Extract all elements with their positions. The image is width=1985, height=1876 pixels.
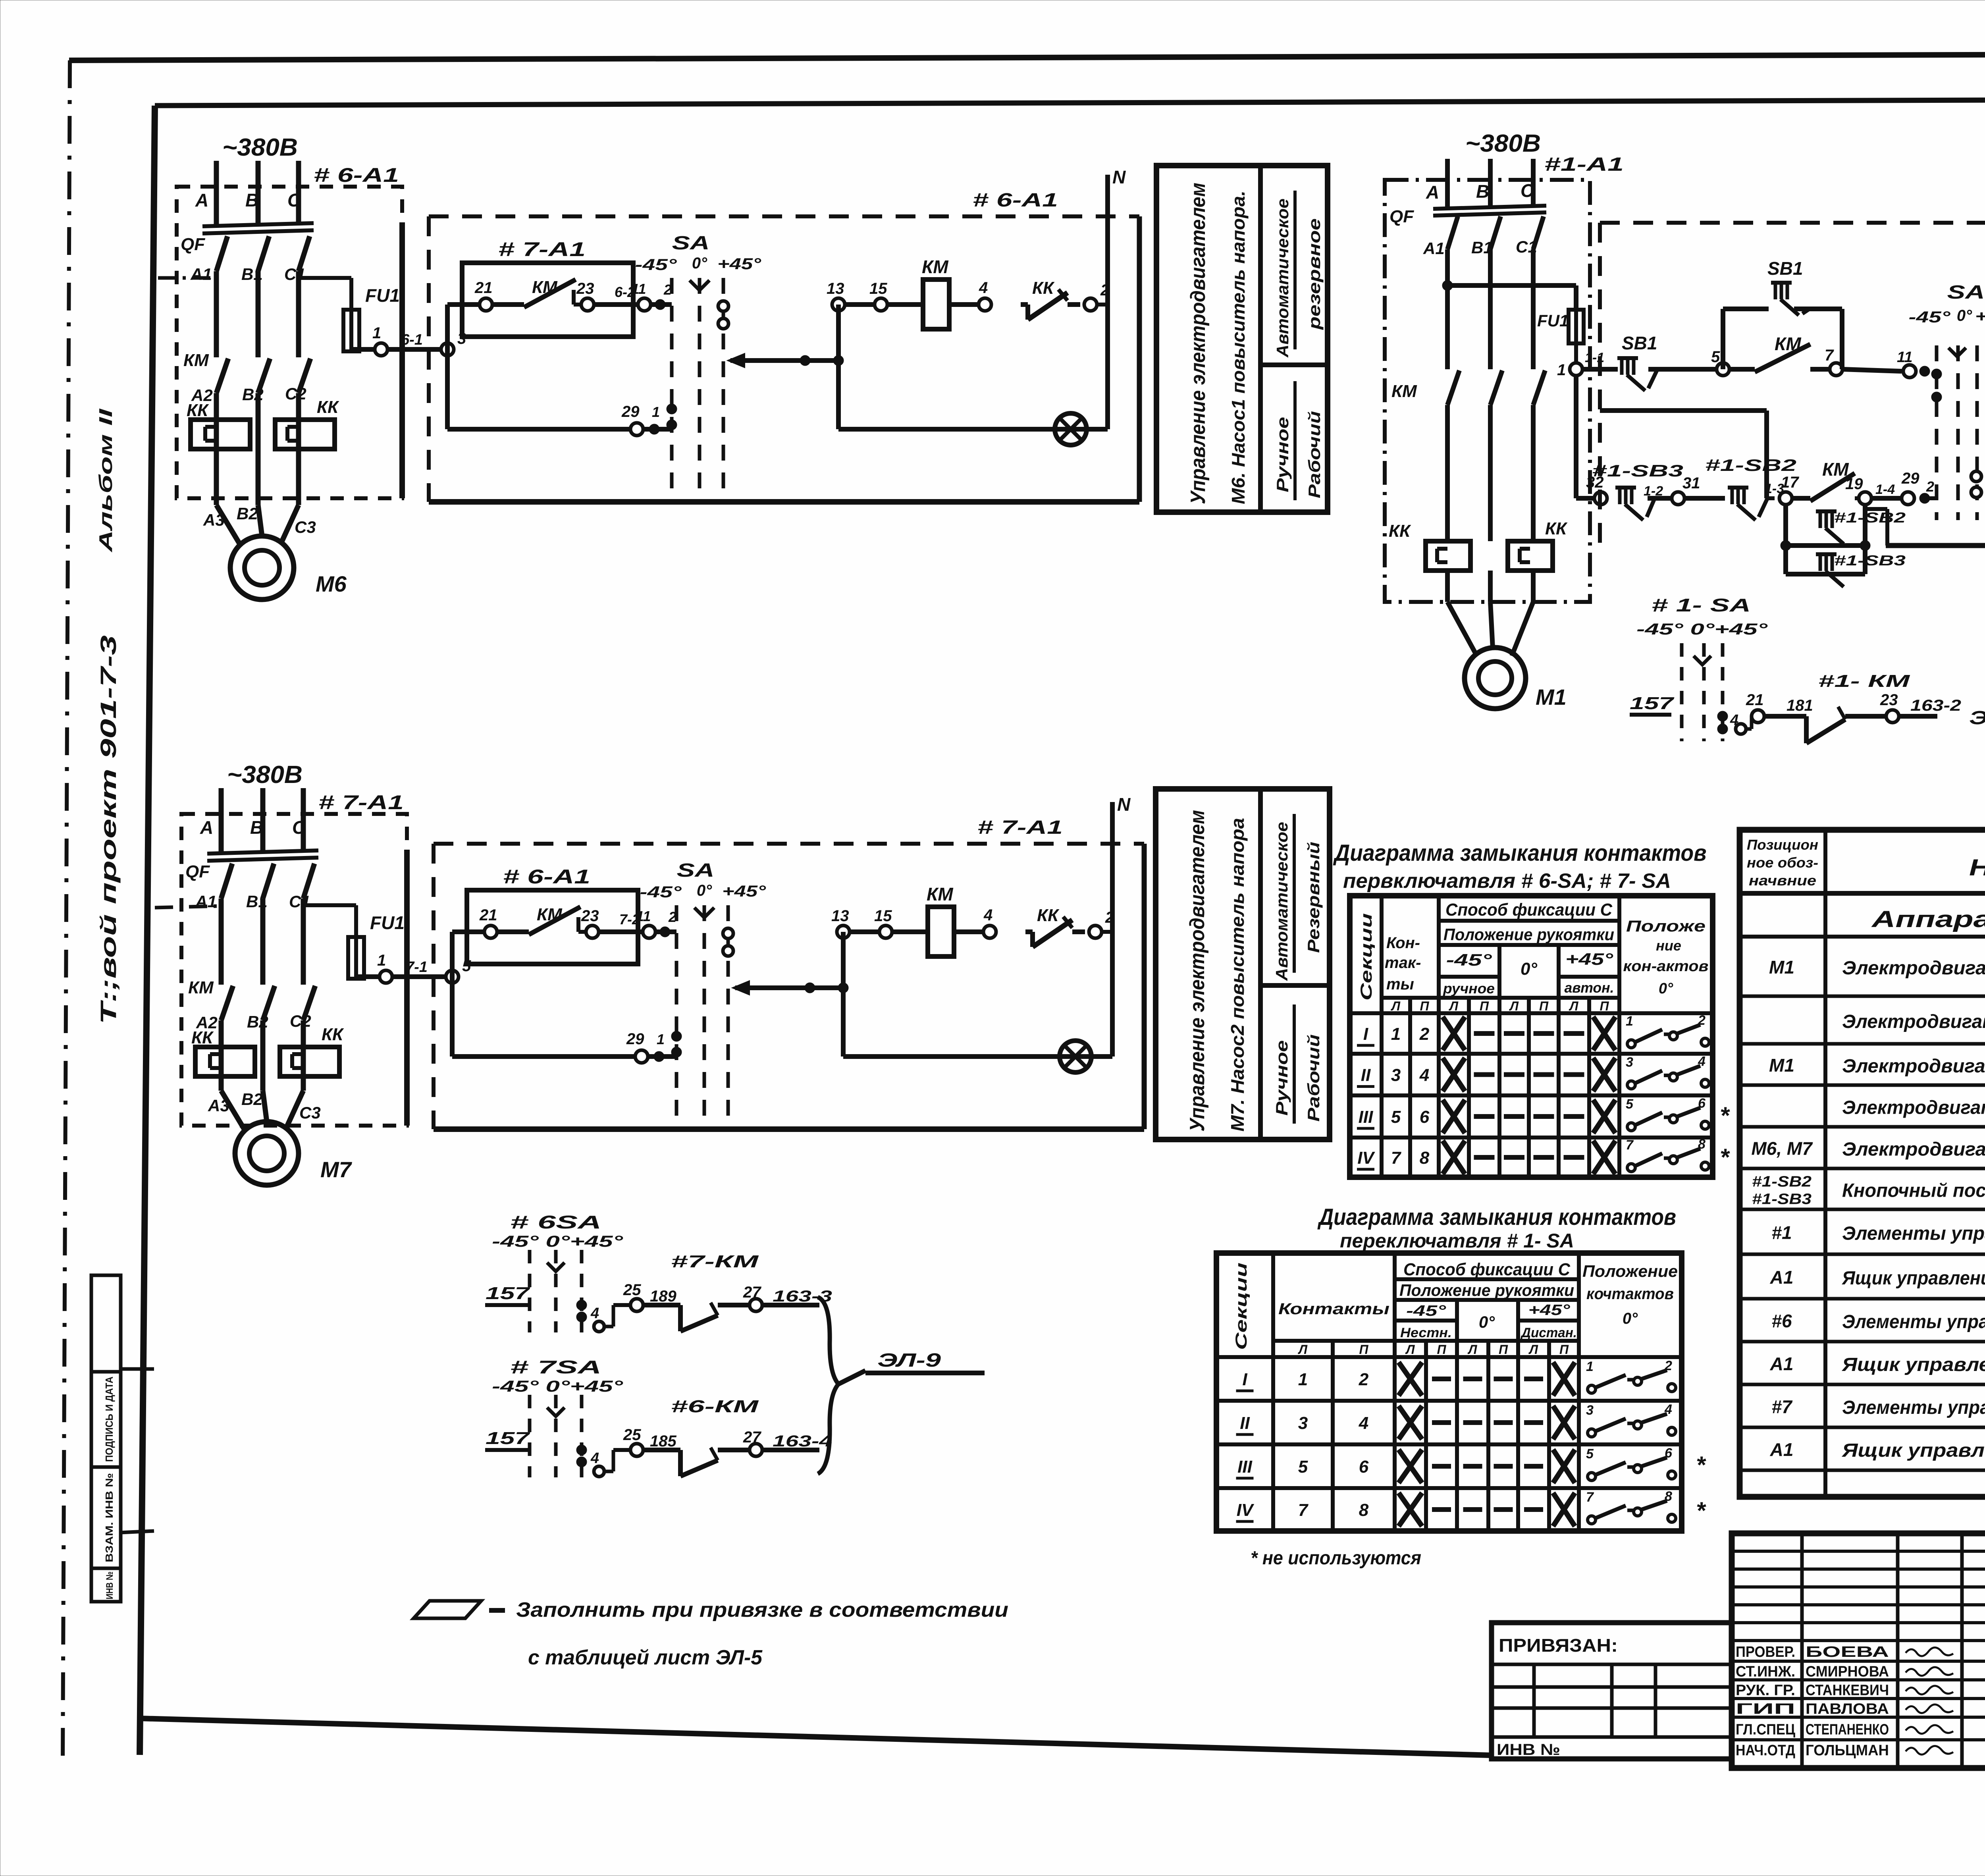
svg-text:Автоматическое: Автоматическое xyxy=(1272,822,1291,981)
motor M1 xyxy=(1465,648,1526,709)
selector #1-SA dashed line 1 xyxy=(1680,643,1684,741)
thermal contact KK (NC) xyxy=(1025,917,1085,947)
svg-text:-45° 0°+45°: -45° 0°+45° xyxy=(492,1233,624,1250)
svg-text:III: III xyxy=(1237,1457,1252,1477)
starter cabinet right edge xyxy=(399,222,405,498)
svg-text:Л: Л xyxy=(1298,1342,1308,1357)
parts row 2 name xyxy=(1842,1011,1985,1032)
table 2 row IV dashes xyxy=(1432,1507,1543,1512)
svg-text:ИНВ №: ИНВ № xyxy=(104,1571,115,1599)
table 2 row IV X mark right xyxy=(1553,1493,1575,1526)
svg-text:~380В: ~380В xyxy=(1465,130,1541,157)
contact ring (# 7SА) xyxy=(594,1466,604,1477)
table 2 row III contact position sketch xyxy=(1586,1446,1676,1481)
svg-text:В2: В2 xyxy=(247,1012,268,1031)
table 1 row II X mark left xyxy=(1443,1058,1465,1091)
svg-text:Электродвигатель типа АО2-32-2: Электродвигатель типа АО2-32-2, 4кВт,~38… xyxy=(1842,1139,1985,1160)
svg-text:Положение рукоятки: Положение рукоятки xyxy=(1443,925,1614,944)
table 2 header: Положение контактов xyxy=(1582,1262,1678,1327)
thermal element KK (phase A) xyxy=(191,420,250,449)
note: asterisk not used xyxy=(1251,1548,1421,1569)
svg-text:# 1- SА: # 1- SА xyxy=(1652,595,1751,615)
selector SA contact dots lower xyxy=(671,1031,682,1057)
phase labels A B C xyxy=(200,817,306,838)
thermal relay KK label right xyxy=(322,1025,344,1044)
signal lamp xyxy=(1055,413,1087,445)
relay #6-КМ label xyxy=(671,1397,759,1416)
svg-text:2: 2 xyxy=(1926,478,1934,495)
sheet inner left frame line xyxy=(140,106,155,1755)
labels A1 B1 C1 xyxy=(190,265,306,283)
svg-text:+45°: +45° xyxy=(1975,308,1985,325)
svg-text:В1: В1 xyxy=(246,892,268,911)
svg-text:С3: С3 xyxy=(299,1103,321,1122)
table 2 row II dashes xyxy=(1432,1420,1543,1425)
selector output arrow wire xyxy=(732,981,848,995)
svg-text:QF: QF xyxy=(185,862,210,881)
aux contact node 21 xyxy=(484,925,497,938)
svg-text:163-4: 163-4 xyxy=(773,1433,832,1450)
starter cabinet right edge xyxy=(404,850,410,1126)
node 13 xyxy=(832,298,845,311)
svg-text:FU1: FU1 xyxy=(1537,311,1569,330)
svg-text:ГЛ.СПЕЦ: ГЛ.СПЕЦ xyxy=(1736,1722,1795,1738)
svg-text:29: 29 xyxy=(1901,470,1919,487)
svg-text:Диаграмма замыкания контакто: Диаграмма замыкания контактов xyxy=(1317,1204,1676,1230)
parts row 3 name xyxy=(1842,1056,1985,1077)
node 15 label xyxy=(874,907,892,925)
svg-text:185: 185 xyxy=(650,1433,676,1450)
thermal relay KK label left xyxy=(187,401,209,420)
node 2 xyxy=(1084,298,1097,311)
neutral label N xyxy=(1117,794,1131,815)
table 2 row II X mark right xyxy=(1553,1406,1575,1439)
svg-text:КК: КК xyxy=(1037,906,1060,925)
phase wire 2 (M1) xyxy=(1490,159,1502,602)
table 1 row IV X mark left xyxy=(1443,1141,1465,1174)
fuse FU1 label xyxy=(365,285,400,306)
wire number 163-2 xyxy=(1910,697,1961,714)
svg-text:I: I xyxy=(1363,1024,1368,1044)
selector #1-SA dashed line 3 xyxy=(1721,643,1725,741)
svg-text:0°: 0° xyxy=(1659,980,1673,997)
node 2 label xyxy=(1105,909,1114,926)
svg-text:С2: С2 xyxy=(290,1012,311,1030)
svg-text:#1-SВ3: #1-SВ3 xyxy=(1592,461,1683,480)
svg-text:~380В: ~380В xyxy=(227,761,303,789)
parts row 8 name xyxy=(1841,1268,1985,1289)
table 2 row I contact position sketch xyxy=(1586,1358,1676,1393)
wire node2 to N line xyxy=(1097,303,1108,307)
parts row 10 name xyxy=(1841,1354,1985,1375)
table 1 row IV dashes xyxy=(1474,1155,1584,1160)
wire node2 to N line xyxy=(1102,930,1112,934)
svg-text:*: * xyxy=(1696,1497,1706,1524)
node 4 xyxy=(983,925,996,938)
svg-text:6: 6 xyxy=(1698,1096,1706,1111)
selector SA dashed line 1 xyxy=(670,278,674,496)
thermal element KK (phase A) xyxy=(195,1047,255,1076)
svg-text:5: 5 xyxy=(1711,348,1720,366)
table 2 row IV contact numbers xyxy=(1298,1500,1369,1520)
node label 3 xyxy=(457,330,466,347)
phase labels A B C (M1) xyxy=(1426,180,1534,202)
svg-text:1-2: 1-2 xyxy=(1644,484,1663,499)
svg-text:А: А xyxy=(195,190,208,210)
motor label М6 xyxy=(316,571,347,596)
svg-text:М1: М1 xyxy=(1536,684,1567,710)
svg-text:так-: так- xyxy=(1385,954,1421,972)
table 2 row IV contact position sketch xyxy=(1586,1489,1676,1524)
table 1 row II section numeral xyxy=(1357,1066,1374,1087)
svg-text:6: 6 xyxy=(1665,1446,1673,1461)
table 2 header: Секции xyxy=(1233,1263,1250,1350)
supply tap dash-dot stub (M7) xyxy=(155,906,219,908)
svg-text:QF: QF xyxy=(181,235,205,254)
node 3 xyxy=(441,343,454,356)
svg-text:с таблицей лист ЭЛ-5: с таблицей лист ЭЛ-5 xyxy=(528,1646,763,1669)
caption text: Ручное xyxy=(1273,417,1292,492)
svg-text:#1-SВ2: #1-SВ2 xyxy=(1705,456,1796,474)
svg-text:П: П xyxy=(1420,999,1429,1013)
svg-text:КМ: КМ xyxy=(1391,382,1417,401)
svg-text:#1- КМ: #1- КМ xyxy=(1818,671,1910,691)
table 1 header: Контакты xyxy=(1385,934,1421,993)
parts row 9 position xyxy=(1771,1311,1792,1331)
svg-text:5: 5 xyxy=(1626,1097,1634,1112)
svg-text:FU1: FU1 xyxy=(370,912,405,933)
svg-text:0°: 0° xyxy=(1623,1310,1638,1327)
svg-text:N: N xyxy=(1112,167,1126,187)
svg-text:1: 1 xyxy=(1298,1370,1308,1389)
svg-text:Л: Л xyxy=(1391,999,1401,1013)
svg-text:1: 1 xyxy=(1626,1014,1633,1029)
svg-text:ние: ние xyxy=(1656,937,1681,954)
circuit breaker QF bar (M1) xyxy=(1433,206,1546,216)
svg-text:Альбом II: Альбом II xyxy=(95,408,116,553)
svg-text:23: 23 xyxy=(1880,691,1898,709)
svg-text:#1-А1: #1-А1 xyxy=(1544,154,1624,175)
label 4 xyxy=(1730,712,1738,729)
svg-text:3: 3 xyxy=(1586,1403,1594,1418)
svg-text:А3: А3 xyxy=(208,1096,229,1115)
sheet ref ЭЛ-9 xyxy=(1969,708,1985,729)
table 1 header: Положение рукоятки xyxy=(1443,925,1614,944)
self-hold KM label xyxy=(1775,334,1802,354)
labels A3 B2 C3 xyxy=(208,1090,321,1122)
aux contact node 21 xyxy=(480,298,492,311)
svg-text:29: 29 xyxy=(626,1030,644,1048)
wire node3 up to aux contact xyxy=(452,932,491,977)
stamp text: подпись и дата xyxy=(103,1377,115,1462)
svg-text:П: П xyxy=(1437,1342,1446,1357)
table 2 title line 1 xyxy=(1317,1204,1676,1230)
node 27 (# 7SА) xyxy=(750,1444,762,1456)
contact #7-КМ (NO) xyxy=(643,1303,750,1331)
node 15 xyxy=(875,298,887,311)
junction dot 2 xyxy=(660,927,670,937)
svg-text:КК: КК xyxy=(317,397,339,417)
svg-text:С: С xyxy=(1521,180,1534,201)
wire ring to node 25 (# 7SА) xyxy=(604,1450,630,1471)
svg-text:2: 2 xyxy=(1359,1370,1369,1389)
selector SA dashed line 1 (M1) xyxy=(1935,345,1939,520)
node 23 label xyxy=(581,907,599,925)
selector SA handle mark xyxy=(694,908,714,918)
contact #6-КМ (NO) xyxy=(643,1448,750,1476)
svg-text:0°: 0° xyxy=(1957,307,1972,324)
svg-text:15: 15 xyxy=(874,907,892,925)
svg-text:I: I xyxy=(1242,1370,1247,1389)
node 2 label xyxy=(1100,281,1109,299)
svg-text:КК: КК xyxy=(1389,521,1411,541)
svg-text:автон.: автон. xyxy=(1565,979,1614,996)
node 29 xyxy=(635,1050,648,1063)
node 4 label xyxy=(979,279,988,297)
svg-text:Секции: Секции xyxy=(1358,913,1375,1001)
caption text: Автоматическое (2) xyxy=(1272,822,1291,981)
table 2 row III dashes xyxy=(1432,1464,1543,1469)
table 2 row IV section numeral xyxy=(1236,1500,1255,1521)
aux relay box label # 6-А1 xyxy=(503,866,590,888)
svg-text:8: 8 xyxy=(1698,1137,1706,1152)
control cabinet dashed box #1-A1 xyxy=(1600,223,1985,546)
svg-text:N: N xyxy=(1117,794,1131,815)
svg-text:6: 6 xyxy=(1420,1107,1430,1127)
svg-text:#1-SВ2: #1-SВ2 xyxy=(1834,509,1906,526)
svg-text:С1: С1 xyxy=(284,265,306,283)
lamp bus wire xyxy=(843,1054,1112,1059)
wire 31 to SB2 xyxy=(1684,496,1725,501)
circuit breaker QF label (M1) xyxy=(1389,207,1414,226)
parts row 7 qty xyxy=(0,0,0,0)
label 2 (M1) xyxy=(1926,478,1934,495)
thermal element KK (phase C) xyxy=(275,420,335,449)
table 2 row II contact position sketch xyxy=(1586,1402,1676,1437)
svg-text:-45°: -45° xyxy=(1406,1303,1446,1319)
svg-text:29: 29 xyxy=(621,403,640,420)
selector # 6SА dashed line 3 xyxy=(580,1250,584,1332)
svg-text:Способ фиксации С: Способ фиксации С xyxy=(1445,900,1613,920)
table 1 row I contact numbers xyxy=(1391,1024,1430,1044)
svg-text:#1-SВ3: #1-SВ3 xyxy=(1752,1191,1812,1208)
svg-text:2: 2 xyxy=(1419,1024,1430,1044)
svg-text:КК: КК xyxy=(1545,519,1568,538)
control cabinet dashed box # 6-А1 xyxy=(429,216,1139,502)
contactor KM label (power contacts) xyxy=(183,351,209,370)
svg-text:НАЧ.ОТД: НАЧ.ОТД xyxy=(1736,1742,1795,1759)
table 2 row I X mark right xyxy=(1553,1362,1575,1396)
svg-text:7: 7 xyxy=(1391,1148,1402,1168)
node 31 xyxy=(1672,492,1684,505)
wire number 181 xyxy=(1786,697,1813,714)
svg-text:11: 11 xyxy=(636,908,651,924)
junction dot 2 (M1) xyxy=(1919,493,1930,503)
selector # 6SА handle xyxy=(547,1263,565,1271)
svg-text:А1: А1 xyxy=(1423,239,1445,258)
svg-text:#7-КМ: #7-КМ xyxy=(671,1252,759,1271)
svg-text:181: 181 xyxy=(1786,697,1813,714)
svg-text:М7. Насос2 повыситель напора: М7. Насос2 повыситель напора xyxy=(1227,818,1248,1132)
title block signature row НАЧ.ОТД xyxy=(1736,1742,1953,1759)
label 1 xyxy=(652,404,660,420)
parts row 10 position xyxy=(1770,1353,1794,1374)
table 1 row IV X mark right xyxy=(1593,1141,1615,1174)
wire number label 7-2 xyxy=(619,911,640,927)
leader to EL-9 xyxy=(838,1371,865,1384)
wire number label 6-2 xyxy=(615,284,635,300)
svg-text:+45°: +45° xyxy=(1528,1302,1571,1319)
svg-text:КК: КК xyxy=(187,401,209,420)
privyazan box xyxy=(1492,1623,1732,1759)
parts table grid xyxy=(1740,830,1985,1497)
svg-text:Ручное: Ручное xyxy=(1273,417,1292,492)
selector #1-SA label xyxy=(1652,595,1751,615)
selector SA angle labels (M1) xyxy=(1909,307,1985,326)
svg-text:Диаграмма замыкания контактов: Диаграмма замыкания контактов xyxy=(1333,840,1707,866)
svg-text:ЭЛ-9: ЭЛ-9 xyxy=(877,1350,941,1371)
svg-text:13: 13 xyxy=(831,907,849,925)
svg-text:#6: #6 xyxy=(1771,1311,1792,1331)
svg-text:IV: IV xyxy=(1237,1500,1255,1520)
supply label ~380V (M1) xyxy=(1465,130,1541,157)
wire coil to node 4 xyxy=(949,302,985,307)
table 1 row II contact position sketch xyxy=(1626,1054,1709,1089)
svg-text:КМ: КМ xyxy=(927,884,954,904)
caption text: Резервный xyxy=(1304,842,1323,953)
svg-text:КМ: КМ xyxy=(183,351,209,370)
table 1 title line 2 xyxy=(1343,870,1671,893)
table 1 row I X mark right xyxy=(1593,1017,1615,1050)
svg-text:1: 1 xyxy=(1586,1359,1594,1374)
motor leads to М7 xyxy=(221,1091,303,1130)
svg-text:# 6-А1: # 6-А1 xyxy=(314,164,399,186)
svg-text:Заполнить при привязке в соотв: Заполнить при привязке в соответствии xyxy=(516,1598,1008,1621)
svg-text:СТ.ИНЖ.: СТ.ИНЖ. xyxy=(1736,1664,1795,1680)
table 2 row II contact numbers xyxy=(1298,1413,1368,1433)
node 15 label xyxy=(869,280,887,297)
node 4 label xyxy=(983,906,992,924)
supply label ~380V xyxy=(222,134,298,161)
thermal element KK phase C (M1) xyxy=(1508,541,1553,571)
contact #1-KM (NO) xyxy=(1764,707,1886,743)
svg-text:# 6-А1: # 6-А1 xyxy=(503,866,590,888)
svg-text:QF: QF xyxy=(1389,207,1414,226)
table 1 header: ручное xyxy=(1443,980,1495,997)
phase wire 3 (M1) xyxy=(1533,159,1545,602)
starter cabinet dashed box # 7-А1 xyxy=(181,814,407,1126)
wire node1 to SB1 xyxy=(1582,367,1618,372)
selector # 7SА dashed line 1 xyxy=(528,1395,532,1477)
bottom bus wire xyxy=(447,427,672,432)
svg-text:ГОЛЬЦМАН: ГОЛЬЦМАН xyxy=(1806,1742,1889,1759)
selector SA stacked dots (M1) xyxy=(1931,369,1942,402)
node 21 label (chain) xyxy=(1746,691,1764,709)
svg-text:Кон-: Кон- xyxy=(1386,934,1420,952)
svg-text:5: 5 xyxy=(1586,1446,1594,1461)
svg-text:21: 21 xyxy=(479,906,497,924)
table 2 header: +45 дистан xyxy=(1520,1302,1577,1340)
parts row 5 name xyxy=(1842,1139,1985,1160)
node 15 xyxy=(879,925,892,938)
node 1 label xyxy=(372,324,381,342)
svg-text:* не используются: * не используются xyxy=(1251,1548,1421,1569)
control cabinet dashed box # 7-А1 xyxy=(434,844,1144,1129)
wire SB2 to node 17 xyxy=(1767,496,1779,500)
node 5 xyxy=(1717,363,1729,376)
sheet outer top border line xyxy=(69,53,1985,60)
svg-text:7: 7 xyxy=(1626,1138,1634,1153)
node 1 label xyxy=(377,952,386,969)
svg-text:19: 19 xyxy=(1845,475,1863,493)
svg-text:SA: SA xyxy=(672,233,710,254)
wire coil to node 4 xyxy=(954,929,990,934)
node 7 label xyxy=(1825,347,1834,364)
labels A2 B2 C2 xyxy=(191,384,306,405)
node 29 label xyxy=(626,1030,644,1048)
node 23 label (chain) xyxy=(1880,691,1898,709)
wire number 157 (underlined) xyxy=(1630,694,1675,715)
motor label M1 xyxy=(1536,684,1567,710)
svg-text:переключатвля # 1- SА: переключатвля # 1- SА xyxy=(1340,1230,1574,1252)
table 1 asterisk row IV xyxy=(1720,1144,1730,1170)
self-hold contact KM (M1) xyxy=(1729,344,1830,372)
svg-text:21: 21 xyxy=(474,279,493,297)
svg-text:РУК. ГР.: РУК. ГР. xyxy=(1736,1682,1795,1699)
svg-text:#1-SВ3: #1-SВ3 xyxy=(1834,552,1906,569)
motor М6 xyxy=(230,536,294,600)
svg-text:# 6SА: # 6SА xyxy=(510,1212,601,1232)
selector SA label (M1) xyxy=(1947,282,1985,303)
svg-text:Ящик управления ЯУ5113:: Ящик управления ЯУ5113: xyxy=(1841,1268,1985,1289)
button #1-SB2 hold label xyxy=(1834,509,1906,526)
table 2 header: Способ фиксации С xyxy=(1403,1260,1571,1279)
svg-text:Аппаратура по месту: Аппаратура по месту xyxy=(1871,906,1985,932)
motor leads M1 xyxy=(1447,602,1533,656)
svg-text:В: В xyxy=(245,190,258,210)
node 13 label xyxy=(831,907,849,925)
fuse FU1 xyxy=(343,310,359,351)
aux contact node 23 xyxy=(586,925,599,938)
node 17 label xyxy=(1781,474,1799,491)
wire fuse to node 1 (M1) xyxy=(1574,343,1578,363)
table 2 row I dashes xyxy=(1432,1377,1543,1381)
node 1 label (M1) xyxy=(1557,361,1566,379)
wire from phase C to fuse xyxy=(299,278,351,310)
svg-text:С3: С3 xyxy=(295,518,316,536)
svg-text:157: 157 xyxy=(486,1284,531,1303)
table 1 row III contact position sketch xyxy=(1626,1096,1709,1131)
svg-text:23: 23 xyxy=(581,907,599,925)
svg-text:4: 4 xyxy=(590,1450,599,1467)
aux contact KM (NO) xyxy=(492,280,580,307)
svg-text:Элементы управления электродви: Элементы управления электродвигателем М6 xyxy=(1842,1311,1985,1332)
table 1 row IV section numeral xyxy=(1357,1148,1375,1169)
node 1 (M1) xyxy=(1570,363,1582,376)
phase wire C mid xyxy=(303,788,315,1091)
svg-text:КМ: КМ xyxy=(922,256,949,277)
supply tap dash-dot stub (M6) xyxy=(158,276,214,280)
caption text: Управление электродвигателем xyxy=(1187,183,1210,504)
wire from phase C to fuse xyxy=(303,905,356,937)
svg-text:8: 8 xyxy=(1665,1489,1672,1504)
wire 13 down to lamp bus xyxy=(841,932,846,1057)
svg-text:21: 21 xyxy=(1746,691,1764,709)
table 1 row IV contact numbers xyxy=(1391,1148,1430,1168)
wire 23 to node 11 xyxy=(599,929,676,934)
wire number 163-3 xyxy=(773,1288,832,1305)
svg-text:ты: ты xyxy=(1386,976,1414,993)
